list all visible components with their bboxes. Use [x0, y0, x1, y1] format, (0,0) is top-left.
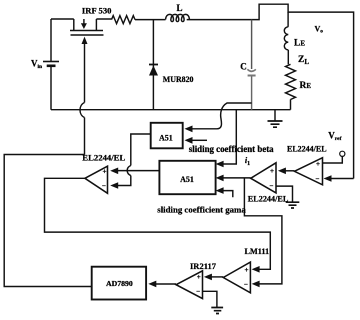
svg-text:A51: A51 [180, 175, 194, 184]
svg-text:+: + [245, 266, 249, 274]
svg-text:EL2244/EL: EL2244/EL [82, 152, 125, 162]
svg-text:EL2244/EL: EL2244/EL [248, 194, 289, 203]
svg-text:−: − [244, 281, 248, 289]
svg-text:RE: RE [300, 81, 312, 91]
svg-text:+: + [316, 160, 320, 168]
svg-text:+: + [103, 167, 107, 175]
svg-text:ZL: ZL [298, 55, 309, 66]
svg-text:−: − [270, 182, 274, 190]
svg-text:−: − [316, 175, 320, 183]
svg-text:−: − [196, 288, 200, 296]
svg-text:Vo: Vo [315, 25, 324, 35]
svg-text:L: L [177, 3, 183, 13]
svg-text:AD7890: AD7890 [106, 279, 133, 288]
svg-text:LM111: LM111 [245, 247, 270, 256]
svg-text:+: + [270, 167, 274, 175]
svg-text:EL2244/EL: EL2244/EL [287, 144, 327, 153]
svg-text:sliding coefficient gama: sliding coefficient gama [157, 204, 246, 214]
svg-text:LE: LE [294, 38, 305, 48]
svg-text:IRF 530: IRF 530 [82, 5, 112, 15]
svg-text:MUR820: MUR820 [163, 75, 194, 84]
svg-text:−: − [102, 182, 106, 190]
svg-text:IR2117: IR2117 [190, 261, 217, 271]
svg-text:sliding coefficient beta: sliding coefficient beta [189, 144, 274, 154]
svg-text:Vref: Vref [328, 131, 341, 143]
svg-text:C: C [240, 61, 247, 71]
svg-text:i1: i1 [245, 156, 250, 167]
svg-text:A51: A51 [159, 133, 173, 142]
svg-text:+: + [197, 273, 201, 281]
svg-text:Vin: Vin [31, 58, 42, 70]
